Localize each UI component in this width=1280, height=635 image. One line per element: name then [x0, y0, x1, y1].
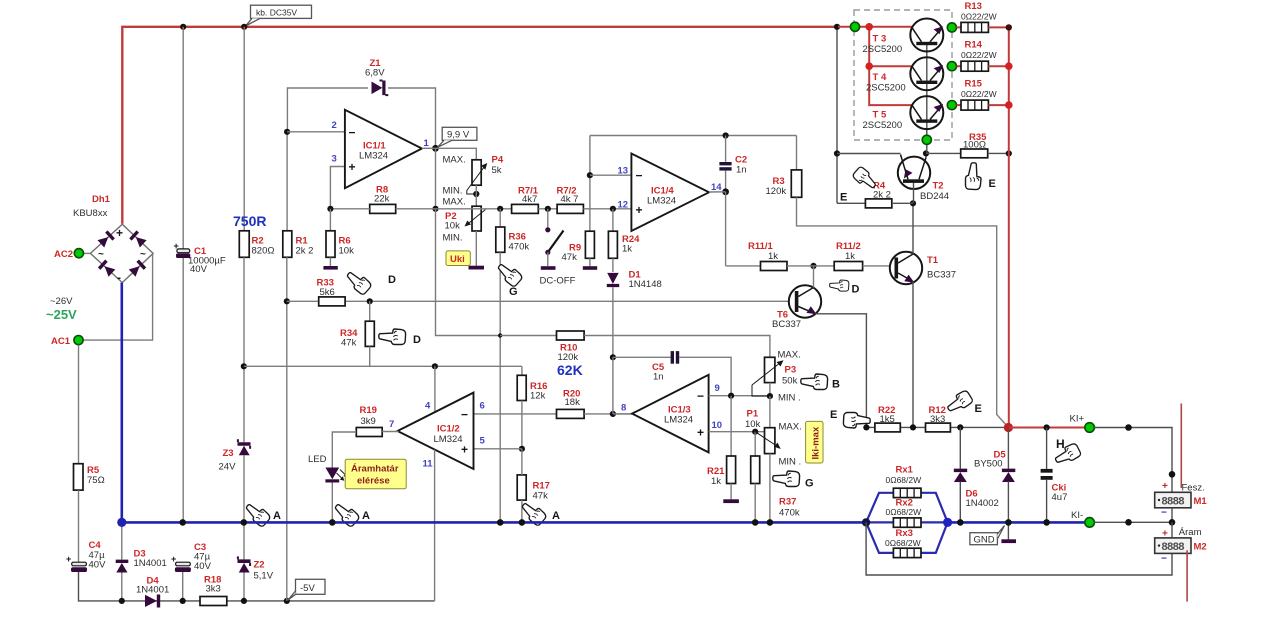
- wire pin8: [613, 413, 632, 415]
- terminal AC2: [54, 249, 90, 260]
- svg-text:P1: P1: [747, 409, 759, 420]
- wire D1 col to pin8: [612, 357, 614, 414]
- svg-text:MAX.: MAX.: [443, 197, 466, 208]
- wire pin6 row: [474, 413, 557, 415]
- svg-text:E: E: [975, 403, 982, 415]
- svg-text:elérése: elérése: [357, 476, 390, 487]
- svg-text:+: +: [174, 241, 179, 251]
- svg-text:MIN.: MIN.: [443, 186, 463, 197]
- svg-text:2SC5200: 2SC5200: [863, 44, 903, 55]
- resistor R11/2: [834, 241, 862, 271]
- node R8 left: [327, 206, 333, 212]
- wire node to R35: [926, 152, 961, 154]
- node rail/R4col: [834, 24, 840, 30]
- hand H at Cki: [1053, 437, 1082, 467]
- hand D at R34: [379, 329, 421, 346]
- wire output col to R10 row: [436, 209, 501, 336]
- capacitor C5: [613, 351, 731, 396]
- hand A left: [243, 500, 281, 527]
- transistor T3 2SC5200: [863, 19, 944, 56]
- node P4/P2: [473, 191, 479, 197]
- svg-text:GND: GND: [974, 534, 995, 545]
- node pin10/R37: [752, 429, 758, 435]
- svg-text:KI+: KI+: [1070, 414, 1085, 425]
- svg-text:+: +: [66, 554, 71, 564]
- hand A at R17: [519, 499, 560, 526]
- svg-text:BY500: BY500: [974, 459, 1003, 470]
- node T2 base/R4: [910, 200, 916, 206]
- diode D1: [607, 258, 662, 357]
- resistor R6: [326, 209, 354, 257]
- svg-text:+: +: [349, 160, 356, 174]
- node D6 top: [957, 424, 963, 430]
- svg-text:R19: R19: [360, 405, 377, 416]
- label bubble GND: [970, 526, 1005, 546]
- svg-text:M2: M2: [1194, 542, 1207, 553]
- wire sense col down: [866, 522, 1172, 575]
- svg-text:MIN .: MIN .: [779, 457, 802, 468]
- label box Uki: [446, 251, 470, 266]
- wire C1 column: [182, 27, 184, 249]
- svg-text:3k3: 3k3: [206, 584, 221, 595]
- svg-text:470k: 470k: [509, 242, 530, 253]
- svg-text:12: 12: [618, 200, 629, 211]
- wire R10 to P3 top: [584, 336, 770, 358]
- wire row209 P2 to R7/1: [436, 208, 512, 210]
- wire pin4: [434, 366, 436, 412]
- wire pin9 row: [709, 395, 770, 397]
- zener Z3: [219, 439, 251, 472]
- svg-text:−: −: [1161, 554, 1167, 565]
- svg-text:2: 2: [332, 120, 337, 131]
- svg-text:12k: 12k: [530, 391, 546, 402]
- svg-text:10: 10: [712, 420, 723, 431]
- resistor R7/2: [557, 186, 584, 214]
- svg-text:62K: 62K: [557, 362, 583, 378]
- svg-text:Dh1: Dh1: [92, 194, 111, 205]
- svg-text:18k: 18k: [565, 397, 581, 408]
- hand E at R22: [830, 409, 870, 428]
- svg-text:1k: 1k: [768, 251, 778, 262]
- svg-text:4: 4: [425, 401, 431, 412]
- svg-text:P4: P4: [492, 155, 504, 166]
- svg-text:0Ω22/2W: 0Ω22/2W: [961, 50, 997, 60]
- red node T3: [865, 23, 873, 31]
- capacitor C1: [174, 241, 226, 275]
- svg-text:Z3: Z3: [223, 448, 234, 459]
- svg-text:R14: R14: [965, 40, 983, 51]
- svg-text:1k: 1k: [622, 244, 632, 255]
- wire pin13 column: [589, 136, 591, 210]
- wire Z2 to bottom rail: [243, 573, 245, 601]
- svg-text:B: B: [832, 379, 840, 391]
- node pin12: [610, 206, 616, 212]
- hand G at P1: [773, 471, 814, 490]
- wire AC1 down to R5: [78, 345, 80, 464]
- node Cki top: [1044, 424, 1050, 430]
- svg-text:4k7: 4k7: [522, 194, 537, 205]
- svg-text:IC1/2: IC1/2: [437, 424, 460, 435]
- resistor R21: [707, 396, 739, 503]
- svg-text:8888: 8888: [1162, 541, 1185, 553]
- capacitor C4: [66, 540, 106, 572]
- wire rail to R4 column: [836, 27, 838, 204]
- svg-text:MAX.: MAX.: [778, 350, 801, 361]
- label bubble -5V: [288, 579, 325, 600]
- sense resistor Rx2: [866, 498, 948, 528]
- svg-text:6: 6: [480, 401, 485, 412]
- svg-text:11: 11: [423, 459, 434, 470]
- node C2 top: [723, 132, 729, 138]
- svg-text:4u7: 4u7: [1052, 492, 1068, 503]
- node T5 emitter / R35: [923, 150, 929, 156]
- svg-text:100Ω: 100Ω: [963, 140, 986, 151]
- resistor R19: [332, 405, 398, 468]
- svg-text:kb. DC35V: kb. DC35V: [256, 7, 297, 17]
- label box Aramhatar: [345, 459, 406, 489]
- red probe lead M1: [1180, 404, 1182, 489]
- wire output to vertex: [422, 147, 436, 149]
- label bubble kb. DC35V: [246, 5, 312, 26]
- node pin13: [587, 172, 593, 178]
- svg-text:AC1: AC1: [51, 336, 71, 347]
- svg-text:G: G: [805, 478, 814, 490]
- resistor R33: [317, 278, 346, 306]
- wire R11 mid: [787, 265, 834, 267]
- svg-text:1N4002: 1N4002: [966, 498, 999, 509]
- svg-text:Áram: Áram: [1179, 527, 1202, 538]
- red output rail vertical: [1008, 27, 1010, 427]
- svg-text:1k: 1k: [845, 251, 855, 262]
- resistor R1: [283, 231, 314, 257]
- svg-text:Áramhatár: Áramhatár: [351, 464, 399, 475]
- svg-text:9,9 V: 9,9 V: [447, 129, 470, 140]
- svg-text:2k 2: 2k 2: [873, 190, 891, 201]
- wire pin14 to node: [709, 191, 726, 193]
- wire M1 to KI- row: [1171, 508, 1173, 523]
- wire blue rail to Z2: [243, 523, 245, 559]
- resistor R9: [562, 209, 598, 270]
- potentiometer P1: [745, 409, 802, 468]
- resistor R16: [517, 366, 547, 449]
- svg-text:0Ω68/2W: 0Ω68/2W: [886, 507, 922, 517]
- node C1 top: [180, 24, 186, 30]
- wire AC1 to bridge: [83, 253, 153, 340]
- dashed group box: [854, 10, 952, 140]
- hand D at R33: [344, 268, 396, 295]
- wire KI- to M2: [1094, 521, 1172, 523]
- svg-text:LM324: LM324: [664, 415, 693, 426]
- wire T2 emitter row: [837, 153, 901, 155]
- resistor R12: [926, 405, 951, 432]
- red node R15 rail: [1005, 101, 1013, 109]
- potentiometer P3: [752, 350, 801, 404]
- op-amp IC1/4: [618, 154, 723, 232]
- hand D at T6: [830, 280, 860, 296]
- svg-text:R37: R37: [779, 497, 796, 508]
- meter M2: [1155, 522, 1207, 564]
- green dot T3 emitter: [947, 23, 956, 32]
- wire R7/2 to pin12: [583, 208, 631, 210]
- ground below P2: [469, 266, 485, 270]
- wire output column down: [435, 148, 437, 209]
- svg-text:5k: 5k: [492, 165, 502, 176]
- svg-text:Z2: Z2: [254, 560, 265, 571]
- node R34 top: [367, 298, 373, 304]
- zener Z2: [238, 556, 274, 581]
- svg-text:8: 8: [621, 403, 626, 414]
- resistor R35: [961, 132, 988, 158]
- svg-text:0Ω68/2W: 0Ω68/2W: [886, 475, 922, 485]
- svg-text:−: −: [636, 169, 643, 183]
- wire P2 bottom: [475, 231, 477, 266]
- svg-text:A: A: [552, 510, 560, 522]
- resistor R20: [557, 389, 585, 419]
- green dot T5 emitter row: [947, 101, 956, 110]
- svg-text:H: H: [1056, 437, 1065, 451]
- op-amp IC1/3 (pointing left): [621, 375, 722, 453]
- node output pin1: [432, 145, 439, 152]
- node T6 collector: [810, 263, 816, 269]
- svg-text:Uki: Uki: [450, 254, 465, 265]
- svg-text:9: 9: [715, 383, 720, 394]
- svg-text:7: 7: [389, 419, 394, 430]
- terminal AC1: [51, 336, 83, 348]
- svg-text:1: 1: [424, 138, 430, 149]
- svg-text:1k: 1k: [711, 476, 721, 487]
- svg-text:D: D: [413, 334, 421, 346]
- wire pin10 row: [709, 431, 765, 433]
- hand B at P3: [801, 374, 840, 391]
- svg-text:1N4001: 1N4001: [136, 585, 169, 596]
- wire P3 to P1: [769, 396, 771, 428]
- wire pin3: [330, 167, 345, 209]
- base chain wire: [926, 44, 928, 137]
- node R35 rail: [1006, 150, 1012, 156]
- red node R14 rail: [1005, 62, 1013, 70]
- wire Z3 to blue rail: [243, 455, 245, 521]
- op-amp IC1/1: [332, 110, 430, 188]
- svg-text:47k: 47k: [562, 252, 578, 263]
- resistor R3: [766, 136, 802, 198]
- wire R22 row: [866, 426, 1008, 428]
- svg-text:40V: 40V: [190, 264, 208, 275]
- capacitor C2: [719, 136, 747, 192]
- resistor R2: [239, 231, 274, 257]
- svg-text:D: D: [388, 274, 396, 286]
- svg-text:1N4001: 1N4001: [134, 558, 167, 569]
- wire KI+ to M1: [1094, 428, 1172, 493]
- svg-text:P3: P3: [785, 365, 797, 376]
- svg-text:BC337: BC337: [927, 270, 956, 281]
- svg-text:75Ω: 75Ω: [87, 475, 105, 486]
- svg-text:5,1V: 5,1V: [254, 571, 274, 582]
- node output pin14: [722, 188, 729, 195]
- svg-text:40V: 40V: [194, 561, 212, 572]
- wire pin14 down to R11 row: [725, 192, 727, 266]
- blue rail junction dots: [117, 518, 126, 527]
- blue rail nodes right: [957, 519, 964, 526]
- terminal KI-: [1071, 510, 1094, 527]
- svg-text:G: G: [509, 286, 518, 298]
- svg-text:10k: 10k: [745, 419, 761, 430]
- svg-text:T2: T2: [933, 181, 944, 192]
- svg-text:KI-: KI-: [1071, 510, 1083, 521]
- svg-text:0Ω22/2W: 0Ω22/2W: [961, 12, 997, 22]
- diode D5: [974, 428, 1015, 540]
- svg-text:5k6: 5k6: [320, 287, 335, 298]
- wire +35V red rail top: [122, 27, 838, 224]
- transistor T1 BC337: [890, 252, 956, 284]
- node R1 bottom: [284, 298, 290, 304]
- svg-text:LM324: LM324: [359, 151, 388, 162]
- wire Z1 feedback row: [287, 88, 435, 148]
- wire T1 collector up: [912, 203, 914, 254]
- red feed wires T3 T4 T5: [838, 26, 912, 28]
- LED: [308, 454, 348, 521]
- node pin5/R17: [519, 446, 525, 452]
- svg-text:LED: LED: [308, 454, 327, 465]
- node row366/pin4: [432, 363, 438, 369]
- red wire to KI+: [1008, 427, 1085, 429]
- blue bridge minus column: [121, 283, 124, 523]
- terminal KI+: [1070, 414, 1095, 433]
- wire C4 to bottom rail: [79, 572, 122, 601]
- potentiometer P2: [445, 206, 486, 231]
- svg-text:6,8V: 6,8V: [365, 68, 385, 79]
- node C5 left: [610, 354, 616, 360]
- resistor R17: [517, 449, 550, 522]
- wire R2 bottom column: [243, 257, 245, 442]
- node R2/Z3 row366: [241, 363, 247, 369]
- sense resistor Rx1: [866, 465, 948, 523]
- wire pin5 row: [474, 448, 522, 450]
- wire row366: [244, 365, 522, 367]
- hand E at R12: [945, 389, 982, 416]
- red node T4: [865, 62, 873, 70]
- svg-text:3k3: 3k3: [930, 414, 945, 425]
- wire P1 bottom: [769, 454, 771, 522]
- node R22 left: [863, 424, 869, 430]
- svg-text:50k: 50k: [782, 376, 798, 387]
- svg-text:+: +: [697, 426, 704, 440]
- svg-text:BC337: BC337: [772, 319, 801, 330]
- svg-text:~25V: ~25V: [46, 307, 77, 322]
- svg-text:47k: 47k: [341, 338, 357, 349]
- svg-text:0Ω68/2W: 0Ω68/2W: [885, 538, 921, 548]
- svg-text:E: E: [989, 178, 996, 190]
- svg-text:10k: 10k: [339, 246, 355, 257]
- svg-text:−: −: [461, 408, 468, 422]
- emitter resistor R15: [957, 79, 1009, 111]
- node output junction red: [1004, 423, 1013, 432]
- hand E at R4: [840, 166, 879, 204]
- wire R2 column upper: [243, 27, 245, 231]
- diode D4: [136, 576, 169, 608]
- green dot T4 emitter: [947, 62, 956, 71]
- resistor R8: [370, 185, 396, 214]
- wire R5 to C4: [78, 490, 80, 562]
- svg-text:5: 5: [480, 436, 486, 447]
- op-amp IC1/2 (pointing left): [389, 393, 486, 470]
- svg-text:24V: 24V: [219, 462, 237, 473]
- wire P4 top: [436, 148, 477, 160]
- label box Iki-max: [806, 421, 823, 463]
- svg-text:820Ω: 820Ω: [252, 246, 275, 257]
- wire R11/2 to T1 base: [863, 265, 895, 267]
- hand A at LED: [332, 500, 370, 527]
- svg-text:2k 2: 2k 2: [296, 246, 314, 257]
- diode D6: [954, 427, 999, 521]
- green node rail in: [850, 22, 859, 31]
- svg-text:120k: 120k: [766, 186, 787, 197]
- wire T2 collector to node: [925, 153, 927, 157]
- svg-text:22k: 22k: [374, 194, 390, 205]
- hand G at R36: [495, 260, 524, 298]
- svg-text:−: −: [697, 389, 704, 403]
- svg-text:T 3: T 3: [873, 34, 887, 45]
- svg-text:1k5: 1k5: [880, 414, 895, 425]
- svg-text:750R: 750R: [233, 213, 266, 229]
- svg-text:M1: M1: [1194, 496, 1208, 507]
- green dot T5 base chain: [922, 135, 931, 144]
- node T1 emitter row: [910, 424, 916, 430]
- svg-text:MIN.: MIN.: [443, 233, 463, 244]
- node pin8: [610, 411, 616, 417]
- svg-text:-5V: -5V: [300, 583, 315, 594]
- svg-text:D: D: [852, 284, 860, 296]
- svg-text:A: A: [273, 510, 281, 522]
- capacitor C3: [171, 542, 212, 572]
- resistor R34: [340, 301, 374, 366]
- svg-text:A: A: [362, 510, 370, 522]
- resistor R5: [74, 464, 105, 490]
- transistor T2 BD244: [898, 155, 949, 204]
- svg-text:10k: 10k: [445, 221, 461, 232]
- transistor T4 2SC5200: [866, 57, 943, 93]
- resistor R11/1: [726, 241, 787, 271]
- svg-text:47k: 47k: [533, 491, 549, 502]
- svg-text:MAX.: MAX.: [779, 422, 802, 433]
- svg-text:R15: R15: [965, 79, 983, 90]
- svg-text:3: 3: [332, 154, 337, 165]
- svg-text:~: ~: [98, 249, 104, 260]
- blue 0V rail left: [122, 521, 866, 524]
- node P3 min: [767, 393, 773, 399]
- resistor R22: [875, 405, 900, 432]
- resistor R37: [751, 432, 800, 522]
- node pin2: [284, 129, 290, 135]
- wire R1 bottom column: [286, 257, 288, 601]
- meter M1: [1155, 481, 1208, 519]
- switch DC-OFF: [540, 209, 576, 287]
- node rail top: [1006, 24, 1012, 30]
- wire R1 column: [286, 132, 288, 231]
- node sense left: [862, 518, 870, 526]
- transistor T5 2SC5200: [863, 96, 944, 131]
- svg-text:Iki-max: Iki-max: [811, 426, 822, 459]
- svg-text:2SC5200: 2SC5200: [863, 120, 903, 131]
- svg-text:T 5: T 5: [873, 110, 887, 121]
- wire R7/1 to R7/2: [538, 208, 557, 210]
- resistor R7/1: [512, 186, 539, 214]
- node R2 top: [241, 24, 247, 30]
- transistor T6 BC337: [772, 266, 821, 330]
- svg-text:+: +: [1162, 481, 1168, 492]
- node R36 col row335: [498, 333, 502, 337]
- junction dots bottom rail: [119, 598, 125, 604]
- svg-text:~26V: ~26V: [50, 296, 73, 307]
